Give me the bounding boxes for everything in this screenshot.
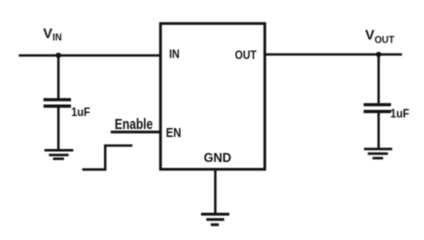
svg-text:Enable: Enable	[115, 116, 153, 133]
svg-text:IN: IN	[169, 47, 180, 61]
wire OUT output	[264, 53, 402, 55]
wire Enable to EN pin	[111, 131, 161, 134]
capacitor C2 1uF	[364, 105, 391, 112]
wire step waveform (enable signal)	[82, 146, 132, 170]
node label VIN	[43, 25, 62, 44]
wire C2 top lead	[377, 55, 379, 104]
node label VOUT	[365, 26, 395, 46]
svg-text:1uF: 1uF	[71, 105, 90, 119]
svg-text:EN: EN	[166, 125, 181, 140]
wire GND pin lead	[214, 169, 216, 213]
ground (below C2)	[364, 149, 392, 158]
node VIN junction	[56, 53, 61, 58]
svg-text:OUT: OUT	[375, 34, 395, 46]
node VOUT junction	[376, 52, 381, 57]
regulator IC U1 (body with pins IN, OUT, EN, GND)	[161, 24, 265, 170]
svg-text:1uF: 1uF	[390, 107, 409, 121]
wire VIN input	[19, 54, 161, 56]
svg-text:IN: IN	[53, 33, 62, 44]
wire C1 bottom lead	[57, 108, 59, 151]
svg-text:OUT: OUT	[235, 48, 257, 62]
svg-text:GND: GND	[204, 150, 232, 165]
ground (below C1)	[44, 150, 73, 159]
capacitor C1 1uF	[44, 100, 72, 106]
wire C1 top lead	[57, 55, 59, 98]
ground (below GND pin)	[201, 214, 229, 225]
wire C2 bottom lead	[377, 113, 379, 149]
